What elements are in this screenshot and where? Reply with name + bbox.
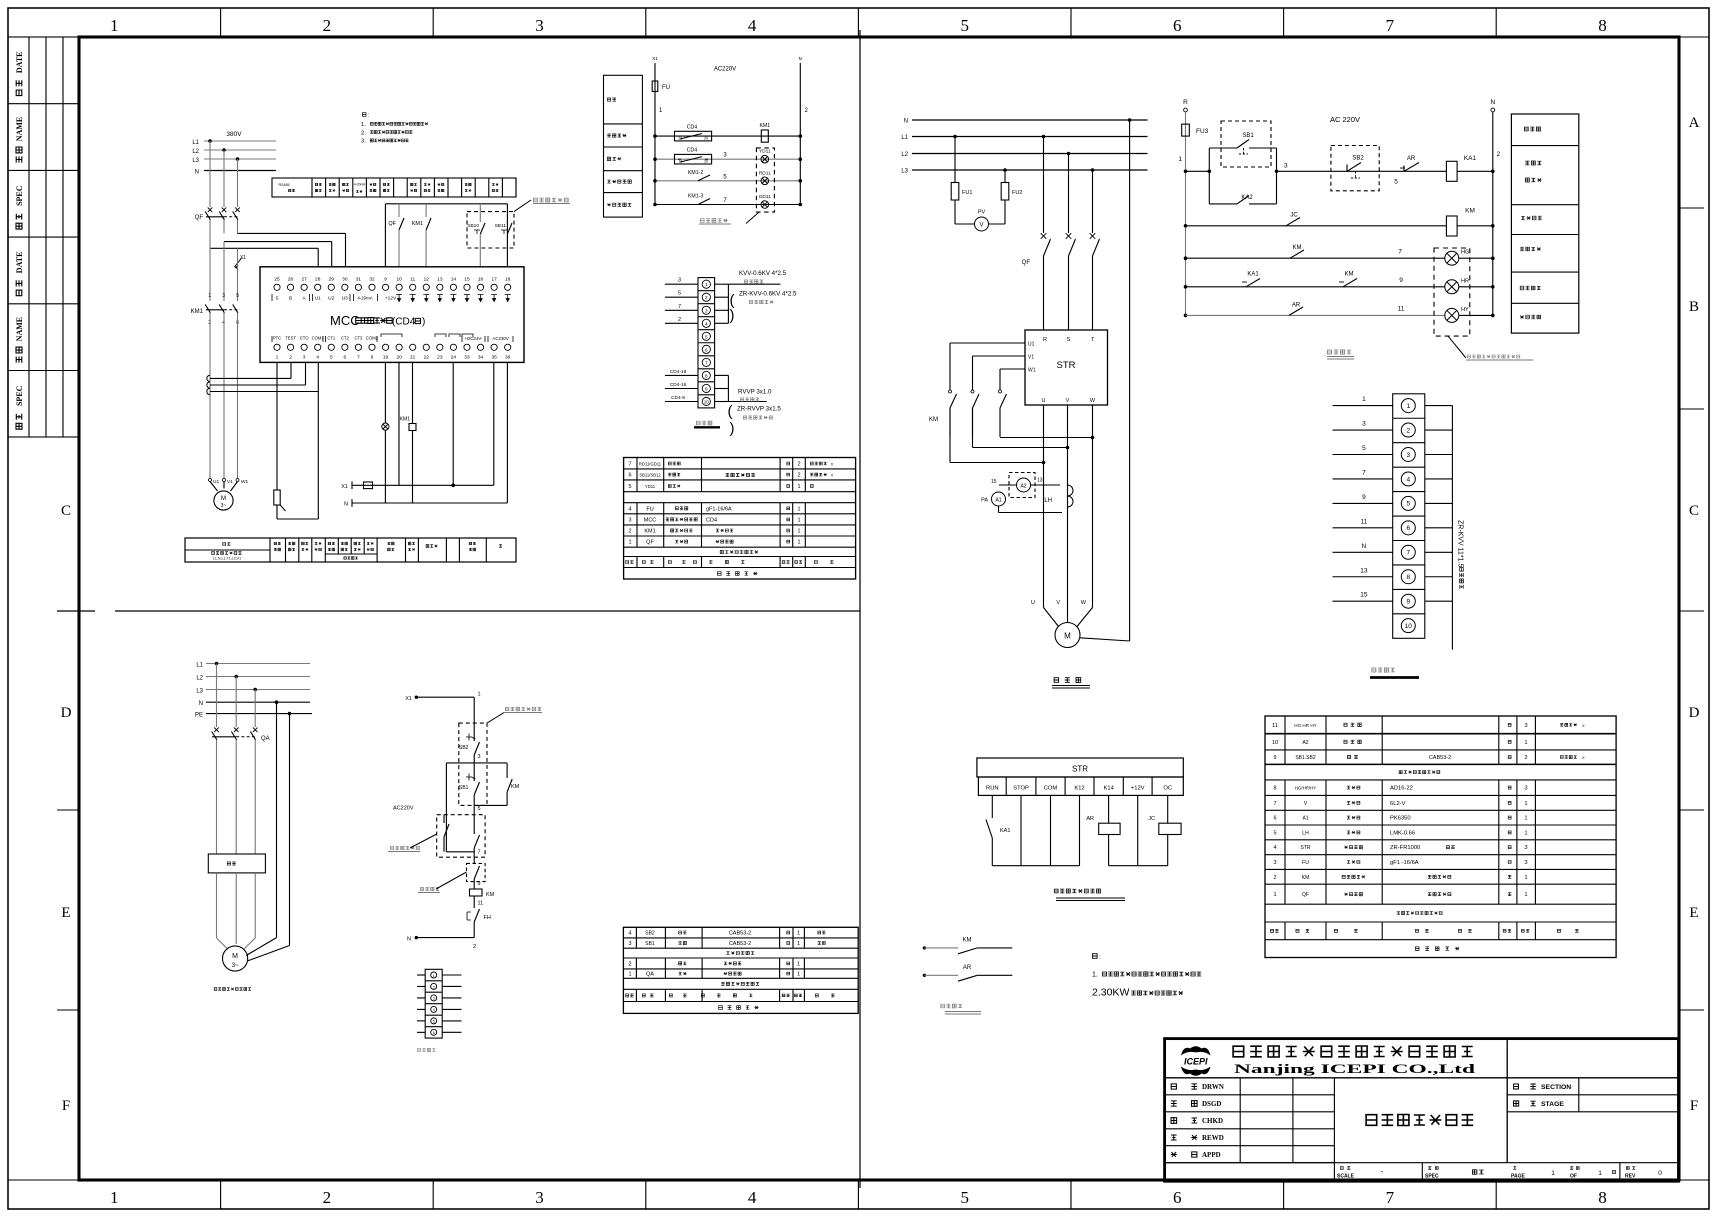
wire PE bus BL xyxy=(206,713,312,715)
STR control terminal cells xyxy=(978,777,1183,795)
svg-text:8: 8 xyxy=(1598,16,1607,35)
wire L2 bus xyxy=(204,149,276,151)
wire L1 tap to MCC U1 xyxy=(210,247,318,249)
svg-text:N: N xyxy=(904,119,908,125)
svg-text:X1: X1 xyxy=(652,56,658,61)
remote control label + leader xyxy=(390,846,419,849)
svg-text:5: 5 xyxy=(960,1188,969,1207)
svg-text:4: 4 xyxy=(748,16,757,35)
svg-text:KM: KM xyxy=(1302,875,1310,881)
svg-text:5: 5 xyxy=(1394,179,1398,186)
svg-text:1: 1 xyxy=(1524,892,1527,898)
wire COM xyxy=(1050,795,1052,865)
terminal strip left wires xyxy=(1333,405,1393,407)
lamps dashed enclosure xyxy=(1434,248,1470,336)
contactor aux contact KM1 xyxy=(425,204,427,217)
BOM band: cabinet devices xyxy=(1397,911,1442,914)
svg-text:8: 8 xyxy=(1598,1188,1607,1207)
svg-text:6: 6 xyxy=(1173,1188,1182,1207)
leader field control network label xyxy=(514,200,531,212)
svg-text:SCALE: SCALE xyxy=(1337,1174,1355,1180)
svg-text:QF: QF xyxy=(388,221,396,227)
equipment list table (CD4 accessory) xyxy=(624,458,856,580)
svg-text:4: 4 xyxy=(628,931,631,937)
svg-text:23: 23 xyxy=(437,355,443,361)
svg-text:6: 6 xyxy=(1173,16,1182,35)
svg-text:6: 6 xyxy=(628,473,631,479)
svg-text:W1: W1 xyxy=(1028,368,1036,374)
svg-text:10: 10 xyxy=(704,399,710,404)
svg-text:7: 7 xyxy=(1398,249,1402,256)
motor M1 3-phase xyxy=(210,482,218,492)
field terminal strip box xyxy=(1393,394,1425,639)
svg-text:15: 15 xyxy=(464,277,470,283)
terminal column left wires 8-10 xyxy=(665,374,698,376)
node L3 tap xyxy=(236,157,240,161)
svg-text:L3: L3 xyxy=(901,169,908,175)
svg-text:2: 2 xyxy=(473,944,476,950)
svg-text:CD4: CD4 xyxy=(706,517,717,523)
svg-text:DRWN: DRWN xyxy=(1202,1083,1224,1091)
svg-text:OF: OF xyxy=(1570,1174,1577,1180)
svg-text:L1: L1 xyxy=(901,135,908,141)
svg-text:7: 7 xyxy=(1273,801,1276,807)
svg-text:6L2-V: 6L2-V xyxy=(1390,801,1406,807)
svg-text:SPEC: SPEC xyxy=(15,185,24,206)
title block outer frame xyxy=(1165,1039,1679,1182)
bypass wires rejoin phases xyxy=(999,408,1001,438)
svg-text:9: 9 xyxy=(478,881,481,887)
svg-text:26: 26 xyxy=(288,277,294,283)
svg-text:K14: K14 xyxy=(1103,786,1114,792)
wire PE drop to motor xyxy=(289,714,291,946)
bottom zone strip line xyxy=(8,1179,1709,1181)
spare terminal caption xyxy=(418,1048,436,1051)
svg-text:AD16-22: AD16-22 xyxy=(1390,786,1413,792)
svg-text:N: N xyxy=(407,937,411,943)
svg-text:1: 1 xyxy=(797,941,800,947)
wire L2 tap to MCC U2 xyxy=(224,241,332,243)
fuse FU3 xyxy=(1182,124,1190,136)
svg-text:6: 6 xyxy=(344,355,347,361)
breaker QF (3-pole) xyxy=(208,208,213,213)
wire main control vertical xyxy=(473,697,475,741)
left-half horizontal divider xyxy=(115,610,860,612)
svg-text:25: 25 xyxy=(274,277,280,283)
svg-text:1: 1 xyxy=(1598,1170,1602,1177)
pushbutton enclosure dashed (SB2/SB1) xyxy=(459,723,487,805)
svg-text:1.: 1. xyxy=(1092,972,1098,979)
pushbutton table bottom title xyxy=(719,1006,759,1010)
svg-text:ZR-RVVP 3x1.5: ZR-RVVP 3x1.5 xyxy=(737,406,781,413)
svg-text:1: 1 xyxy=(110,1188,119,1207)
svg-text:6: 6 xyxy=(705,347,708,352)
relay coil AR on K14 xyxy=(1108,795,1110,823)
svg-text:2: 2 xyxy=(628,529,631,535)
svg-text:SB2: SB2 xyxy=(645,931,655,937)
svg-text:E: E xyxy=(1689,905,1698,921)
svg-text:CD4: CD4 xyxy=(687,148,697,154)
svg-text:KM: KM xyxy=(929,417,938,423)
svg-text:KM: KM xyxy=(963,938,972,944)
svg-text:W: W xyxy=(1081,600,1087,606)
motor feeder description table (bottom of TL section) xyxy=(185,538,516,562)
svg-text:6: 6 xyxy=(1273,816,1276,822)
title block bottom row xyxy=(1165,1162,1679,1164)
svg-text:U1: U1 xyxy=(1028,342,1035,348)
svg-text:KM: KM xyxy=(486,892,495,898)
wire RUN with relay contact KA1 xyxy=(991,795,993,818)
STR control terminal header xyxy=(977,758,1183,777)
svg-text:35: 35 xyxy=(491,355,497,361)
pushbutton table header row xyxy=(626,994,634,997)
svg-text:A2: A2 xyxy=(1020,484,1026,490)
svg-text:AR: AR xyxy=(1292,303,1301,309)
leader: mounted on operating post xyxy=(505,707,541,711)
relay coil KM1 (on terminal 21) xyxy=(412,362,414,423)
svg-text:1: 1 xyxy=(628,540,631,546)
fuse FU xyxy=(652,81,658,92)
main contact inside remote box xyxy=(473,814,475,834)
title block top divider xyxy=(1165,1077,1679,1079)
svg-text:1: 1 xyxy=(797,961,800,967)
svg-text:1: 1 xyxy=(705,282,708,287)
svg-text:4: 4 xyxy=(433,1008,435,1012)
caption terminal strip xyxy=(1372,668,1395,672)
svg-text:3: 3 xyxy=(1362,421,1366,428)
thermistor PTC sensor xyxy=(274,490,280,505)
svg-text:X: X xyxy=(1582,723,1585,728)
left zone ticks xyxy=(57,610,95,612)
svg-text:2.: 2. xyxy=(361,130,366,136)
svg-text:S: S xyxy=(1067,337,1071,343)
svg-text:X: X xyxy=(1582,755,1585,760)
BOM bottom title xyxy=(1415,947,1459,951)
svg-text:16: 16 xyxy=(478,277,484,283)
svg-text:9: 9 xyxy=(1273,755,1276,761)
legend box column (signal descriptions) xyxy=(604,75,643,217)
svg-text:A1: A1 xyxy=(995,498,1001,504)
svg-text:N: N xyxy=(195,170,199,176)
svg-text:11: 11 xyxy=(1272,723,1278,729)
svg-text:7: 7 xyxy=(1362,469,1366,476)
rung 4: KM1-3 contact + lamp GD11 xyxy=(655,204,800,206)
svg-text:(CD4: (CD4 xyxy=(392,317,416,328)
caption motor circuit with overload xyxy=(214,988,251,991)
signal legend strip above MCC xyxy=(272,178,516,197)
BOM header row xyxy=(1271,929,1279,932)
svg-text:5: 5 xyxy=(330,355,333,361)
rung2 bypass control xyxy=(1184,224,1188,228)
svg-text:REV: REV xyxy=(1625,1174,1636,1180)
relay coil KA1 xyxy=(1446,161,1457,181)
svg-text:7: 7 xyxy=(1406,550,1410,557)
zone dividers top/bottom xyxy=(220,8,222,37)
svg-text:V1: V1 xyxy=(227,479,233,485)
svg-text:36: 36 xyxy=(505,355,511,361)
BOM band: panel-mounted devices xyxy=(1399,771,1440,774)
svg-text:5: 5 xyxy=(236,293,239,299)
svg-text:CAB53-2: CAB53-2 xyxy=(729,931,751,937)
svg-text:C: C xyxy=(61,503,71,519)
svg-text:11: 11 xyxy=(410,277,415,283)
svg-text:2: 2 xyxy=(433,985,435,989)
field control dashed enclosure xyxy=(467,212,514,248)
remote selector contact (left branch) xyxy=(443,815,445,823)
svg-text:+12V: +12V xyxy=(1131,786,1145,792)
svg-text:L3: L3 xyxy=(192,158,199,164)
svg-text:HG: HG xyxy=(1461,250,1469,256)
svg-text:15: 15 xyxy=(991,479,997,485)
svg-text:U: U xyxy=(1042,398,1046,404)
pushbutton SB1 start xyxy=(1221,121,1271,167)
svg-text:RUN: RUN xyxy=(986,786,999,792)
svg-text:HG HR HY: HG HR HY xyxy=(1294,723,1316,728)
svg-text:5: 5 xyxy=(705,334,708,339)
svg-text:ZR-KVV-0.6KV 4*2.5: ZR-KVV-0.6KV 4*2.5 xyxy=(739,291,797,298)
svg-text:QF: QF xyxy=(646,540,654,546)
svg-text:SB2: SB2 xyxy=(1352,156,1364,162)
svg-text:1: 1 xyxy=(1524,801,1527,807)
wire CT secondary to MCC terminals 2-4 xyxy=(210,377,291,379)
relay coil JC on OC xyxy=(1167,795,1169,823)
function description table (right) xyxy=(1511,114,1578,333)
svg-text:9: 9 xyxy=(384,277,387,283)
svg-text:CD4-18: CD4-18 xyxy=(670,369,687,375)
svg-text:30: 30 xyxy=(342,277,348,283)
svg-text:1: 1 xyxy=(1524,875,1527,881)
cable bundle KVV right side rows 1-4 xyxy=(715,283,729,285)
wire phase drops to QF xyxy=(209,141,211,207)
caption main circuit xyxy=(1054,678,1081,683)
svg-text:L2: L2 xyxy=(901,152,908,158)
svg-text:1: 1 xyxy=(208,293,211,299)
svg-text:M: M xyxy=(1064,632,1071,641)
svg-text:A: A xyxy=(1689,115,1700,131)
node L1 tap xyxy=(208,139,212,143)
pushbutton SB2 (stop NC) xyxy=(466,734,472,741)
svg-text:KM: KM xyxy=(1345,272,1354,278)
svg-text:COM1: COM1 xyxy=(312,336,325,341)
svg-text:D: D xyxy=(61,705,72,721)
svg-text:F: F xyxy=(1690,1098,1698,1114)
svg-text:24: 24 xyxy=(451,355,457,361)
svg-text:PTC: PTC xyxy=(273,336,281,341)
svg-text:4: 4 xyxy=(316,355,319,361)
wire L3 tap to MCC U3 xyxy=(238,232,346,234)
rung 3: KM1-2 contact + lamp RD11 xyxy=(655,180,800,182)
svg-text:SB2: SB2 xyxy=(459,745,469,751)
svg-text:13: 13 xyxy=(437,277,443,283)
svg-text::: : xyxy=(368,113,369,119)
contactor coil KM (local circuit) xyxy=(473,886,475,889)
svg-text:L1: L1 xyxy=(192,140,199,146)
disconnect marker X1 xyxy=(235,258,242,267)
svg-text:(: ( xyxy=(728,403,733,420)
svg-text:N: N xyxy=(799,56,802,61)
svg-text:2: 2 xyxy=(797,473,800,479)
svg-text:1: 1 xyxy=(797,540,800,546)
svg-text:20: 20 xyxy=(396,355,402,361)
wires overload to motor xyxy=(216,873,218,938)
svg-text:N: N xyxy=(344,502,348,508)
wire K12 xyxy=(1079,795,1081,865)
svg-text:SB1: SB1 xyxy=(645,941,655,947)
svg-text:KM1-3: KM1-3 xyxy=(688,194,703,200)
wire phase drops QF to KM1 xyxy=(209,233,211,301)
common bus RUN-K12 xyxy=(992,865,1079,867)
svg-text:1: 1 xyxy=(1551,1170,1555,1177)
svg-text:3: 3 xyxy=(478,754,481,760)
svg-text:2: 2 xyxy=(289,355,292,361)
svg-text:32: 32 xyxy=(369,277,375,283)
svg-text:5: 5 xyxy=(960,16,969,35)
svg-text:A1: A1 xyxy=(1302,816,1308,822)
svg-text:1: 1 xyxy=(1362,396,1366,403)
svg-text:A2: A2 xyxy=(1302,740,1308,746)
svg-text:AR: AR xyxy=(1086,816,1094,822)
svg-text:1: 1 xyxy=(797,529,800,535)
svg-text:AC220V: AC220V xyxy=(393,806,414,812)
lamp group dashed enclosure xyxy=(756,148,774,212)
svg-text:2: 2 xyxy=(323,16,332,35)
svg-text:CD4-16: CD4-16 xyxy=(670,382,687,388)
svg-text:CT3: CT3 xyxy=(354,336,363,341)
wire N bus xyxy=(204,170,276,172)
svg-text:+12V: +12V xyxy=(385,296,397,302)
svg-text:18: 18 xyxy=(505,277,511,283)
phase drops U V W below STR xyxy=(1043,405,1045,608)
leader lamps mounted on panel xyxy=(1448,336,1466,358)
svg-text:E: E xyxy=(61,905,70,921)
svg-text:3: 3 xyxy=(628,517,631,523)
svg-text:10: 10 xyxy=(1272,740,1278,746)
lamp HR xyxy=(1445,280,1459,294)
svg-text:REWD: REWD xyxy=(1202,1134,1224,1142)
svg-text:DSGD: DSGD xyxy=(1202,1100,1221,1108)
svg-text:L2: L2 xyxy=(196,676,203,682)
svg-text:5: 5 xyxy=(628,484,631,490)
svg-text:KM: KM xyxy=(1465,208,1475,215)
svg-text:3: 3 xyxy=(1524,723,1527,729)
svg-text:B: B xyxy=(289,296,292,302)
svg-text:3: 3 xyxy=(705,308,708,313)
svg-text:KM1: KM1 xyxy=(400,417,411,423)
svg-text:3: 3 xyxy=(1524,860,1527,866)
svg-text:1: 1 xyxy=(478,692,481,698)
bypass contactor KM contacts xyxy=(949,390,952,393)
svg-text:QA: QA xyxy=(646,972,654,978)
wire N bus BL xyxy=(206,701,310,703)
svg-text:21: 21 xyxy=(679,137,683,141)
title block signature rows xyxy=(1165,1094,1335,1096)
pushbutton SB1 (start NO) xyxy=(473,763,475,781)
svg-text:TEST: TEST xyxy=(285,336,296,341)
svg-text:6: 6 xyxy=(433,1031,435,1035)
svg-text:NAME: NAME xyxy=(15,317,24,341)
wire L1 bus BL xyxy=(206,663,310,665)
centre section divider xyxy=(859,30,861,1188)
svg-text:7: 7 xyxy=(628,462,631,468)
svg-text:CAB53-2: CAB53-2 xyxy=(1429,755,1451,761)
output contact KM xyxy=(923,946,926,949)
svg-text:N: N xyxy=(1362,543,1367,550)
wire N bus R xyxy=(912,119,1148,121)
svg-text:380V: 380V xyxy=(226,131,242,138)
svg-text:V: V xyxy=(979,223,983,229)
svg-text:18: 18 xyxy=(679,160,683,164)
wire terminal 36 to N rail xyxy=(506,362,508,503)
svg-text:22: 22 xyxy=(424,355,430,361)
wire L3 bus BL xyxy=(206,689,310,691)
svg-text:SPEC: SPEC xyxy=(1425,1174,1439,1180)
svg-text:1: 1 xyxy=(797,972,800,978)
svg-text:2: 2 xyxy=(323,1188,332,1207)
svg-text:2: 2 xyxy=(1497,151,1501,158)
svg-text:CT1: CT1 xyxy=(327,336,336,341)
svg-text:12: 12 xyxy=(424,277,430,283)
svg-text:QA: QA xyxy=(261,736,270,742)
thermal relay contact FH xyxy=(467,912,471,920)
fuse FU1 + voltmeter tap xyxy=(953,135,957,139)
wire phase drops KM1 to motor terminals xyxy=(209,318,211,479)
svg-text:V: V xyxy=(1066,398,1070,404)
motor terminal W1 xyxy=(236,479,239,482)
svg-text:CAB53-2: CAB53-2 xyxy=(729,941,751,947)
svg-text:D: D xyxy=(1689,705,1700,721)
current transformers CT1-CT3 xyxy=(207,375,210,381)
pushbutton equipment table xyxy=(623,927,858,1013)
spare terminal strip (6 ways) xyxy=(425,969,442,1038)
svg-text:28: 28 xyxy=(315,277,321,283)
svg-text:KM1: KM1 xyxy=(412,221,423,227)
svg-text:1: 1 xyxy=(433,974,435,978)
common bus K14-OC xyxy=(1109,865,1168,867)
svg-text:4: 4 xyxy=(1273,845,1276,851)
svg-text:B: B xyxy=(1689,299,1699,315)
svg-text:YD11: YD11 xyxy=(759,149,771,155)
svg-text:gF1-16/6A: gF1-16/6A xyxy=(706,506,732,512)
svg-text:FU2: FU2 xyxy=(1012,190,1022,196)
svg-text:8: 8 xyxy=(1273,786,1276,792)
svg-text:3: 3 xyxy=(1524,845,1527,851)
svg-text:RS485: RS485 xyxy=(279,183,290,187)
svg-text:17: 17 xyxy=(491,277,497,283)
svg-text:N: N xyxy=(199,701,203,707)
wire L1 bus xyxy=(204,140,276,142)
svg-text:4: 4 xyxy=(748,1188,757,1207)
contactor coil KM (control) xyxy=(1446,216,1457,236)
controller MCC CD4 box xyxy=(260,267,524,363)
node L2 tap xyxy=(222,148,226,152)
svg-text:PAGE: PAGE xyxy=(1511,1174,1525,1180)
svg-text:4: 4 xyxy=(628,506,631,512)
svg-text:5: 5 xyxy=(1362,445,1366,452)
wire L1 bus R xyxy=(912,136,1148,138)
svg-text:C: C xyxy=(1689,503,1699,519)
terminal block column 1-10 xyxy=(698,278,715,408)
svg-text:M: M xyxy=(232,953,238,960)
svg-text:1: 1 xyxy=(1524,830,1527,836)
svg-text:3.: 3. xyxy=(361,139,366,145)
terminal strip right collector + cable xyxy=(1425,405,1453,407)
svg-text:STAGE: STAGE xyxy=(1541,1101,1564,1108)
svg-text:STR: STR xyxy=(1072,765,1088,774)
svg-text:7: 7 xyxy=(478,850,481,856)
rung4 stop indication xyxy=(1184,285,1188,289)
svg-text:JC: JC xyxy=(1290,213,1298,219)
svg-text:4-20mA: 4-20mA xyxy=(354,183,366,187)
